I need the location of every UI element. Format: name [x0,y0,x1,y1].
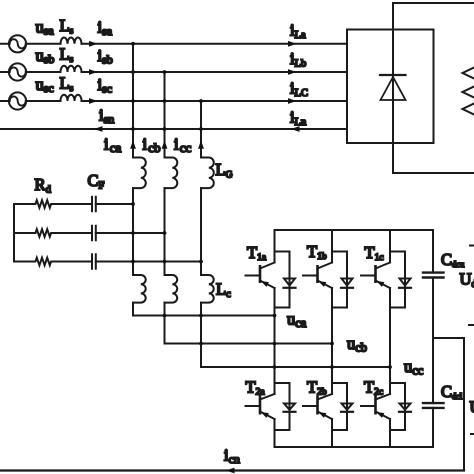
inductor Ls phase c [61,95,82,101]
wire rectifier internal [392,30,394,144]
transistor Q T1c [361,230,390,383]
inductor Lc phase a [133,275,146,303]
wire phase b line [0,71,347,73]
diode antiparallel Q T2a [275,383,296,430]
diode antiparallel Q T1c [390,252,411,308]
wire dropper phase c upper [200,101,202,158]
wire rectifier DC- output [393,143,474,173]
svg-text:Ud: Ud [460,270,474,291]
svg-text:iLa: iLa [290,21,306,42]
arrow i_La [288,41,297,47]
arrow i_sc [89,98,98,104]
wire DC link vertical [432,230,434,447]
Ud bracket dash lower [469,324,474,326]
arrow i_sb [89,69,98,75]
capacitor Cdcu [423,273,444,278]
Ud bracket dash upper [470,245,474,247]
transistor Q T2c [361,383,390,447]
wire dropper phase c lower [200,303,202,367]
svg-text:iLb: iLb [290,49,306,70]
capacitor CF row c [92,254,201,269]
diode rectifier [380,75,406,100]
wire dropper phase a upper [132,44,134,158]
svg-text:usa: usa [36,18,55,38]
resistor Rd row b [14,229,92,237]
AC source u_sa [9,35,26,52]
wire dropper phase b upper [164,72,166,158]
wire phase b to inverter leg [165,343,333,345]
inductor Lc phase b [165,275,178,303]
load arrows [463,68,474,79]
svg-text:usb: usb [36,46,55,66]
inductor LG phase a [133,158,146,189]
inductor Ls phase b [61,66,82,72]
svg-text:T2b: T2b [307,378,327,398]
svg-text:isb: isb [98,46,113,67]
svg-text:Ud: Ud [470,398,474,419]
svg-text:LG: LG [216,160,233,181]
resistor Rd row c [14,258,92,266]
arrow i_sa [89,41,98,47]
rectifier bridge box [347,30,434,144]
inductor Ls phase a [61,37,82,43]
arrow i_ca [130,140,136,149]
capacitor Cdcl [423,403,444,408]
wire inverter bottom DC bus [275,446,434,448]
svg-text:icb: icb [143,135,161,156]
wire phase c line [0,100,347,102]
AC source u_sb [9,63,26,80]
arrow i_sn [94,126,103,132]
transistor Q T2a [246,383,275,447]
wire RC left bus [13,204,15,262]
diode antiparallel Q T2c [390,383,411,430]
svg-text:iLn: iLn [290,108,307,129]
diode antiparallel Q T1a [275,252,296,308]
svg-text:ucc: ucc [404,357,424,378]
transistor Q T2b [303,383,332,447]
wire dropper phase a middle [132,188,134,275]
wire phase c to inverter leg [201,366,390,368]
arrow i_Lc [288,98,297,104]
arrow i_Ln [291,126,300,132]
svg-text:iLC: iLC [290,79,308,100]
wire inverter top DC bus [275,229,434,231]
Ud bracket dash bottom [471,433,474,435]
wire dropper phase a lower [132,303,134,316]
svg-text:ica: ica [104,135,122,156]
capacitor CF row a [92,197,133,212]
svg-text:isn: isn [99,106,114,127]
diode antiparallel Q T2b [332,383,353,430]
svg-text:Cdcl: Cdcl [441,382,463,401]
wire dropper phase b lower [164,303,166,344]
svg-text:T1b: T1b [307,242,327,262]
wire i_cn neutral return [0,469,464,471]
wire rectifier DC+ output [393,3,474,30]
wire dropper phase b middle [164,188,166,275]
wire neutral line [0,128,347,130]
wire phase a line [0,43,347,45]
wire DC midpoint to neutral [433,338,464,471]
resistor Rd row a [14,200,92,208]
svg-text:T2c: T2c [364,378,383,398]
svg-text:CF: CF [88,171,105,192]
transistor Q T1b [303,230,332,383]
arrow i_cn [226,468,235,474]
inductor LG phase b [165,158,178,189]
svg-text:isa: isa [98,18,113,39]
svg-text:T1c: T1c [365,243,384,263]
svg-text:uca: uca [287,310,307,331]
svg-text:icc: icc [174,135,192,156]
svg-text:ucb: ucb [347,334,367,355]
capacitor CF row b [92,226,165,241]
svg-text:isc: isc [98,75,113,96]
wire phase a to inverter leg [133,315,275,317]
svg-text:Ls: Ls [60,16,74,37]
diode antiparallel Q T1b [332,252,353,308]
arrow i_cb [162,140,168,149]
svg-text:usc: usc [36,75,54,95]
svg-text:Ls: Ls [60,45,74,66]
svg-text:T1a: T1a [247,243,267,263]
svg-text:Rd: Rd [35,175,52,196]
svg-text:icn: icn [224,446,240,467]
arrow i_Lb [288,69,297,75]
wire dropper phase c middle [200,188,202,275]
svg-text:T2a: T2a [246,378,266,398]
svg-text:Ls: Ls [60,74,74,95]
AC source u_sc [9,92,26,109]
transistor Q T1a [246,230,275,383]
inductor LG phase c [201,158,214,189]
arrow i_cc [198,140,204,149]
svg-text:Cdcu: Cdcu [441,250,465,269]
inductor Lc phase c [201,275,214,303]
svg-text:Lc: Lc [216,280,231,301]
